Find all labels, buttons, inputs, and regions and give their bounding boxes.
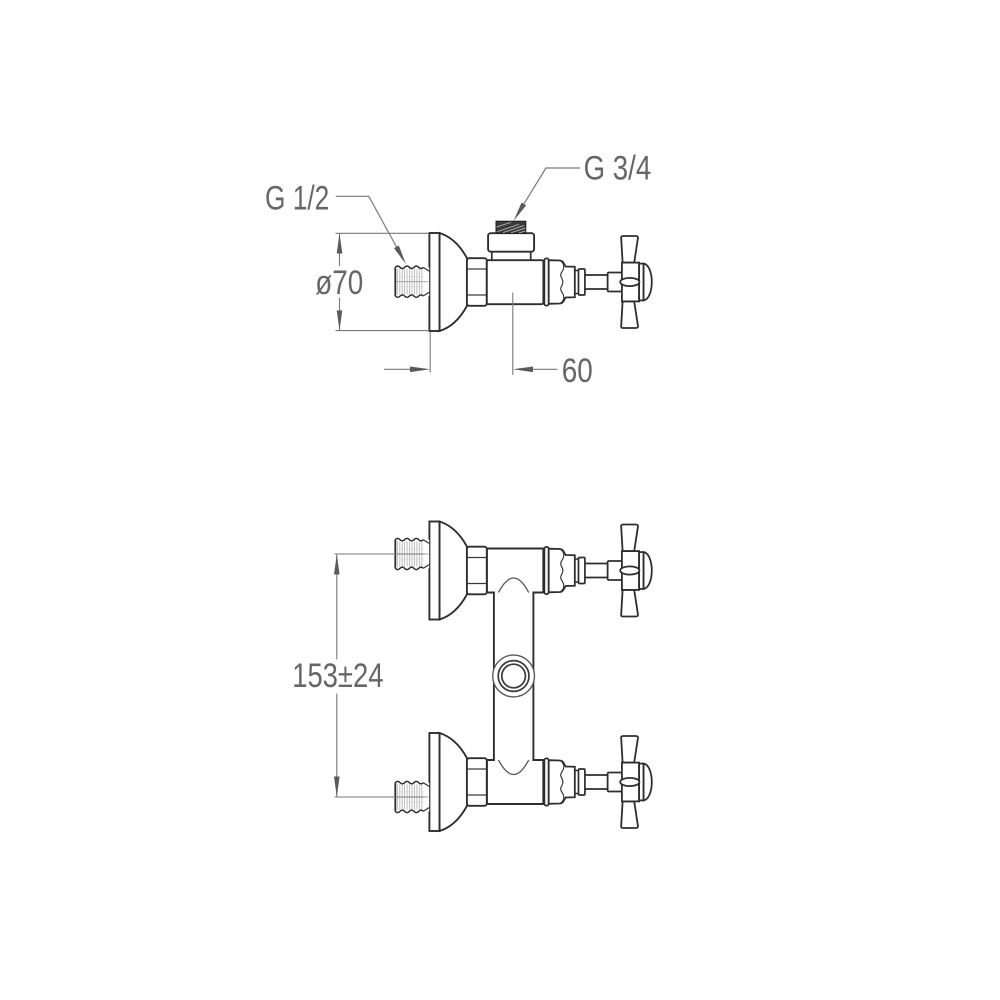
svg-text:60: 60: [562, 352, 593, 390]
svg-text:ø70: ø70: [315, 264, 363, 302]
svg-text:G 1/2: G 1/2: [265, 179, 329, 217]
svg-text:G 3/4: G 3/4: [584, 150, 652, 188]
svg-text:153±24: 153±24: [292, 657, 383, 695]
